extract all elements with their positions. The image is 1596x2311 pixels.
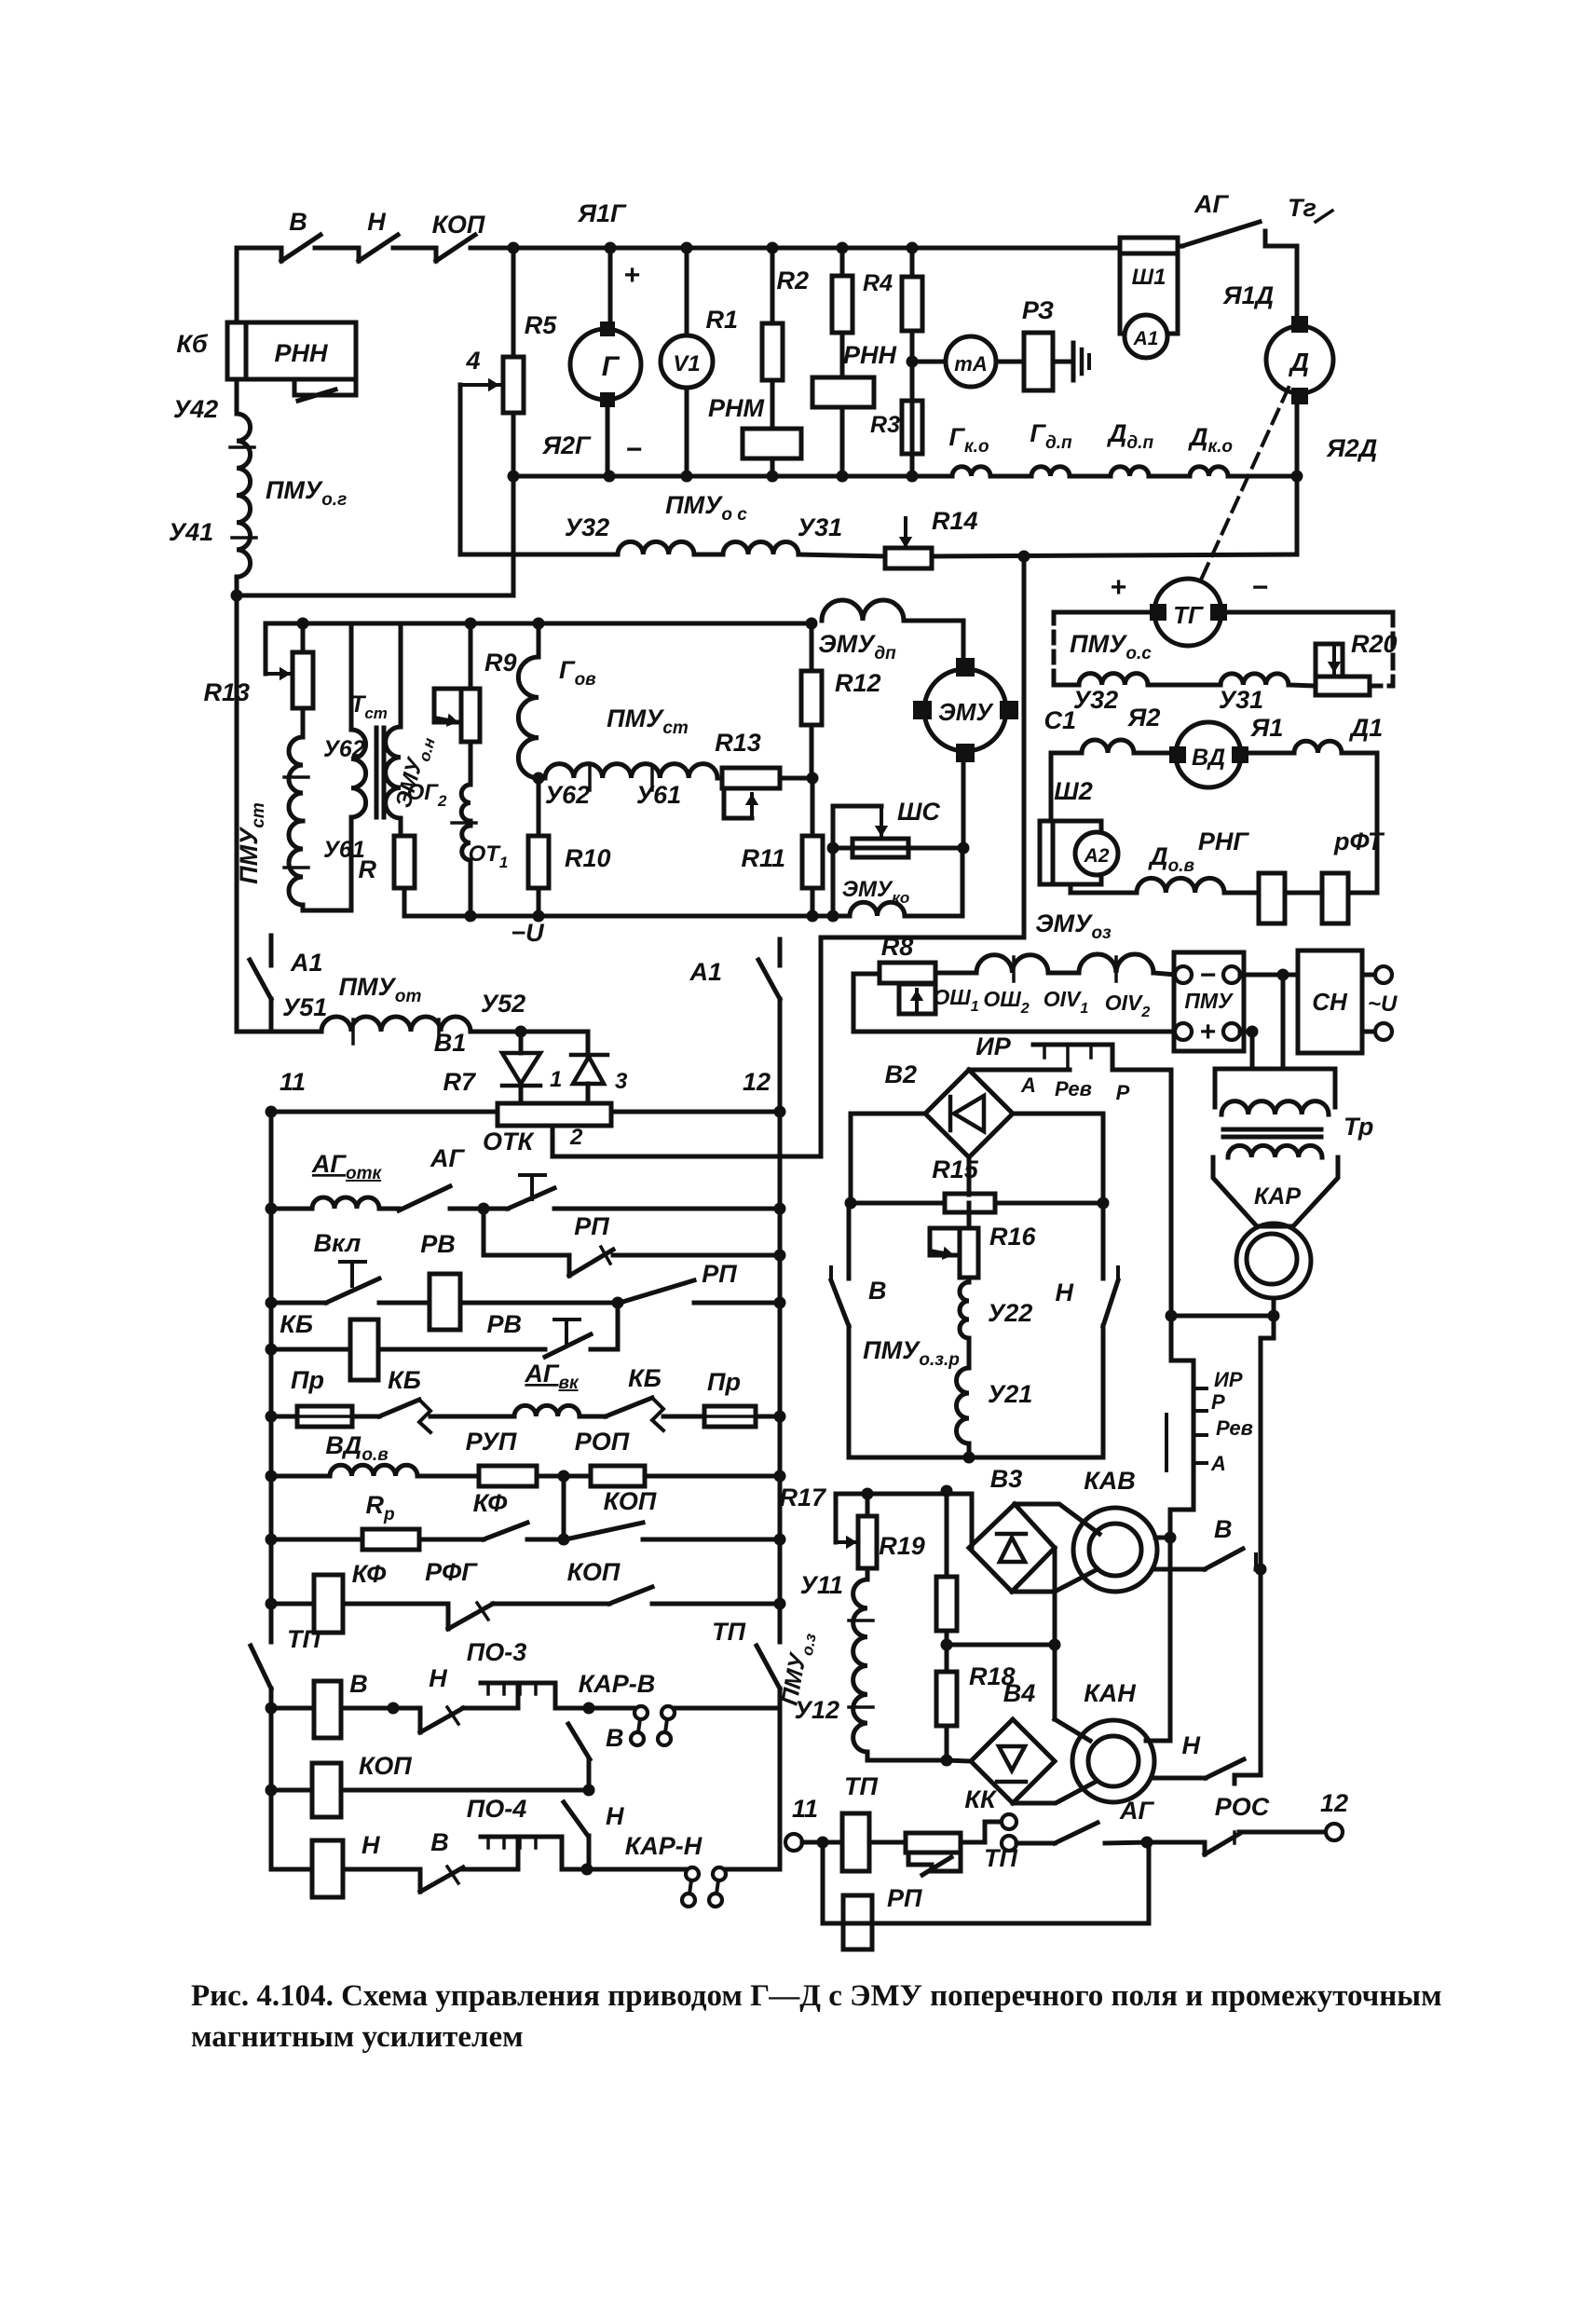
coil ПМУо.г У42 У41 on left rail [237,414,251,577]
row В ПО-3 y=1833 [266,1702,278,1715]
machine ВД circle [1176,722,1241,787]
coil АГотк [312,1197,379,1209]
coil ВДо.в [330,1465,417,1476]
wire КАР to В Н switch bus [1235,1316,1274,1775]
coil ПМУос У31 [723,542,798,555]
contactor КАР coil circles [1236,1224,1311,1298]
svg-text:А: А [1210,1452,1226,1475]
coil ОГ2 [469,742,473,785]
contacts КАР-В [589,1706,634,1711]
svg-text:РЗ: РЗ [1022,296,1054,324]
transformer Тр core bars [1223,1128,1321,1132]
svg-text:Я2Д: Я2Д [1326,434,1377,462]
switch А1 left [269,936,274,965]
svg-text:12: 12 [1320,1789,1348,1817]
wire ПМУозр bottom row [849,1456,1103,1460]
resistor R1 branch [767,242,779,254]
node R14 row junction x=1099 [1018,551,1030,563]
svg-text:−: − [625,434,642,465]
coil У21 [967,1338,972,1368]
svg-text:Д: Д [1289,348,1309,376]
svg-text:А1: А1 [689,958,722,986]
resistor R [399,818,403,836]
svg-text:У11: У11 [800,1571,843,1599]
wire branch to РП НЗ row [484,1209,569,1255]
svg-text:R13: R13 [715,729,761,757]
terminal 11 right section [785,1834,802,1851]
svg-text:КБ: КБ [388,1366,421,1394]
breaker contact КБ right [606,1398,652,1416]
svg-text:Пр: Пр [291,1366,324,1394]
meter тА ammeter [912,360,946,364]
svg-text:Г: Г [602,351,621,382]
contact РВ with Т symbol [554,1318,580,1321]
svg-text:−U: −U [511,919,545,947]
svg-text:КОП: КОП [604,1487,657,1515]
contact КФ [484,1523,527,1539]
wire В3 vertical to КАН diagonal [1053,1645,1057,1719]
svg-text:А: А [1020,1073,1036,1097]
svg-text:Кб: Кб [176,330,209,358]
coil ОШ1 ОШ2 [976,955,1048,973]
rheostat R8 [880,963,935,983]
svg-text:R3: R3 [870,412,900,438]
relay ТП box [823,1840,842,1845]
wire right vertical x=1099 from R14 node [1022,556,1027,937]
rheostat R20 [1289,685,1316,686]
contactor КАН coil circles [1072,1720,1154,1802]
wire В2 right corner to R15 right [1013,1114,1103,1203]
contacts КК [961,1822,1000,1842]
wire ОТК tap 2 from R7 [552,1126,821,1156]
row КФ РФГ y=1721 [266,1598,278,1610]
switch КОП on top bus [434,248,439,261]
shunt Ш1 with ammeter А1 [1120,238,1178,334]
relay РНН with Кб resistor [227,322,246,379]
wire ТГ right loop [1220,610,1393,615]
resistor R4 branch [907,242,919,254]
wire Дк.о to Я2Д node [1228,474,1297,479]
wire У12 bottom corner [867,1752,947,1760]
contact РП normally open [620,1280,694,1303]
machine Д motor circle [1266,326,1333,393]
resistor R18 [945,1645,949,1672]
svg-text:R2: R2 [776,267,809,294]
svg-text:1: 1 [550,1067,562,1092]
svg-text:ТП: ТП [712,1618,745,1646]
ground symbol [1053,360,1073,364]
svg-text:R4: R4 [863,270,893,296]
wire block top bus y=669 [266,622,812,626]
selector bracket ИР Р Рев А [1171,1316,1194,1470]
contact КОП [566,1523,643,1539]
wire В3 right corner vertical [1053,1548,1057,1645]
svg-text:Рев: Рев [1055,1077,1092,1101]
coil У22 [967,1278,972,1282]
svg-text:R15: R15 [932,1155,979,1183]
svg-text:Ш2: Ш2 [1054,777,1092,805]
switch В contactor [1153,1567,1205,1572]
coil Дд.п [1070,474,1111,479]
switch Н right branch [1101,1203,1106,1279]
svg-text:R1: R1 [705,306,738,334]
coil ПМУот У51 У52 [321,1017,471,1032]
wire У61 bottom loop to Тст column [303,817,351,910]
rheostat wiper arrow 4 into R5 [460,383,499,387]
svg-text:У51: У51 [282,993,327,1021]
selector ИР А Рев Р [1033,1043,1112,1047]
wire В3 to КАВ upper diagonal [1015,1504,1099,1534]
rheostat R17 body [858,1516,877,1568]
wire selector row to КАР [1171,1314,1274,1319]
relay КФ coil box [314,1575,343,1633]
svg-text:~U: ~U [1368,991,1398,1017]
relay В coil box [314,1681,341,1738]
switch ТП right rail [757,1646,780,1689]
wire coils to ПМУ box [1153,973,1177,975]
svg-text:Р: Р [1116,1081,1130,1104]
svg-text:ТГ: ТГ [1173,601,1204,629]
resistor R19 [945,1491,949,1577]
wire КАВ right stub to selector vertical [1155,1536,1170,1540]
diode symbol inside В3 [997,1532,1026,1537]
block СН box [1298,950,1362,1053]
switch АГ top right [1178,244,1182,249]
row Вкл РВ y=1398 [266,1297,278,1309]
row Н ПО-4 y=2006 [271,1867,312,1872]
terminals ~U [1362,973,1375,978]
relay РЗ box [996,360,1024,364]
svg-text:РНН: РНН [274,339,328,367]
resistor R12 [810,623,814,671]
svg-text:R20: R20 [1351,630,1398,658]
svg-text:−: − [1199,960,1216,991]
rheostat R9 with wiper loop [469,623,473,689]
relay Н coil box [312,1840,343,1897]
wire ПМУот row y=1107 [237,1030,321,1034]
svg-text:КОП: КОП [432,211,485,239]
svg-text:R7: R7 [443,1068,476,1096]
wire left rail to corner y=639 [235,577,239,1032]
svg-text:R8: R8 [881,933,914,961]
relay РП loop [821,1842,825,1923]
pushbutton ОТК [520,1173,545,1177]
transformer Тст primary winding [351,730,366,817]
switch ТП left rail [251,1646,271,1689]
svg-text:КАР-Н: КАР-Н [625,1832,703,1860]
svg-text:В: В [430,1828,449,1856]
coil Дк.о [1149,474,1190,479]
row ВДо.в y=1584 [266,1470,278,1483]
coil ОГ1 [462,826,471,860]
wire R5 branch vertical [512,248,516,357]
switch Н contactor [1154,1776,1206,1781]
svg-text:С1: С1 [1044,706,1076,734]
wire ПМУ minus to СН [1240,973,1298,978]
wire В3 to КАВ lower diagonal [1012,1590,1055,1594]
contactor КАВ coil circles [1073,1508,1157,1592]
thermal relay КК heater [906,1833,961,1853]
svg-text:КОП: КОП [567,1558,621,1586]
dashed mechanical link Д to ТГ [1202,388,1289,578]
svg-text:R19: R19 [879,1532,925,1560]
wire В2 left corner to left rail [851,1114,925,1203]
transformer Тст core bars [375,728,379,817]
cam switch ПО-3 [518,1683,555,1708]
wire between coils [1148,683,1221,688]
svg-text:КАР: КАР [1254,1183,1301,1210]
contact РОС [1147,1840,1205,1845]
block ПМУ box with terminals [1174,952,1244,1051]
relay КОП coil box [312,1763,341,1817]
rheostat ШС [833,846,963,851]
coil ЭМУко [850,902,905,916]
pushbutton Вкл [340,1260,365,1264]
resistor R7 [498,1103,611,1126]
svg-text:ШС: ШС [897,798,940,826]
contactor КАР pentagon [1213,1157,1338,1226]
wire До.в to РНГ [1224,891,1259,896]
wire left rail x=254 top [235,248,239,322]
svg-text:РНМ: РНМ [708,394,765,422]
wire ОГ1 to bottom bus [469,860,473,916]
wire 11 12 row y=1193 [271,1110,498,1114]
wire R14 to Я2Д corner [932,554,1297,556]
switch В on top bus [280,248,284,261]
coil ПМУст У61 [289,821,303,905]
svg-text:R: R [359,855,377,883]
svg-text:ЭМУ: ЭМУ [938,698,994,726]
svg-text:Пр: Пр [707,1368,741,1396]
svg-text:+: + [623,260,640,291]
machine Г generator circle [605,242,617,254]
wire РУП РОП node vertical [562,1476,566,1539]
wire between У32 У31 [694,553,723,557]
wire ЭМУ bottom to ШС row [962,755,966,848]
svg-text:А2: А2 [1084,845,1110,867]
transformer ЭМУо.н secondary winding [399,623,403,727]
row Пр КБ АГвк y=1520 [266,1411,278,1423]
svg-text:Н: Н [1056,1279,1074,1306]
svg-text:У31: У31 [798,513,842,541]
coil Гов field winding [537,623,541,657]
wire КАН upper stub [1146,1739,1170,1744]
svg-text:R9: R9 [484,649,517,677]
wire block bottom bus y=983 [404,914,850,919]
svg-text:Я1Д: Я1Д [1222,281,1274,309]
fuse Пр right [704,1406,756,1427]
coil ПМУос У32 right section [1054,683,1079,688]
wire С1 to ВД [1134,751,1176,756]
svg-text:КФ: КФ [473,1489,508,1517]
svg-text:Я1Г: Я1Г [577,199,627,227]
wire У21 bottom [967,1446,972,1457]
wire В4 bottom diagonal to КАН [1013,1782,1096,1803]
relay РОП box [591,1466,645,1486]
svg-text:12: 12 [743,1068,771,1096]
svg-text:АГ: АГ [1194,190,1229,218]
coil ПМУос У32 [618,541,694,554]
switch Н on top bus [357,248,361,261]
svg-text:РП: РП [574,1212,609,1240]
svg-text:Я2: Я2 [1127,704,1161,732]
svg-text:КБ: КБ [280,1310,313,1338]
wire elbow to x=881 down to R17 bus [821,937,1024,1156]
resistor R15 [851,1201,945,1206]
svg-text:У52: У52 [481,990,525,1018]
wire R13 to R12 column node [780,776,812,781]
svg-text:R10: R10 [565,844,611,872]
svg-text:R13: R13 [203,678,250,706]
svg-text:ИР: ИР [975,1032,1011,1060]
svg-text:У31: У31 [1219,686,1263,714]
contact РФГ normally closed [446,1604,451,1629]
relay РФТ box [1322,873,1348,923]
wire РНГ to РФТ [1285,891,1322,896]
svg-text:магнитным усилителем: магнитным усилителем [191,2020,524,2054]
svg-text:Н: Н [361,1831,380,1859]
switch АГ bottom [1016,1841,1055,1846]
coil ПМУст У62 [301,708,306,737]
contact РП normally closed [567,1255,572,1276]
rheostat R13 horizontal with wiper [722,768,780,788]
wire left rail below РНН [235,379,239,414]
wire coil gap [1048,971,1079,976]
relay РВ coil box [430,1274,460,1330]
coil ОIV1 ОIV2 [1079,954,1153,973]
svg-text:−: − [1251,572,1268,603]
svg-text:ИР: ИР [1214,1368,1243,1391]
svg-text:В1: В1 [434,1029,467,1057]
coil ПМУсm control winding [539,776,545,781]
svg-text:Рис. 4.104. Схема управления п: Рис. 4.104. Схема управления приводом Г—… [191,1979,1442,2013]
svg-text:В: В [868,1277,887,1305]
relay РУП box [479,1466,537,1486]
svg-text:КАН: КАН [1084,1679,1136,1707]
wire Я2Г bus y=511 [513,474,912,479]
svg-text:Рев: Рев [1216,1416,1253,1440]
coil Гк.о [912,474,952,479]
shunt Ш2 with ammeter А2 [1040,821,1101,884]
svg-text:РВ: РВ [486,1310,522,1338]
svg-text:R16: R16 [989,1223,1037,1251]
row АГотк y=1297 [266,1203,278,1215]
row КБ y=1448 [266,1344,278,1356]
switch В left branch [847,1203,852,1279]
svg-text:Н: Н [1182,1731,1201,1759]
svg-text:Ш1: Ш1 [1132,265,1166,290]
row КОП y=1921 [266,1785,278,1797]
wire Ш2 bottom row [1071,884,1137,893]
svg-text:+: + [1110,572,1126,603]
svg-text:АГ: АГ [430,1144,465,1172]
svg-text:R5: R5 [525,311,557,339]
svg-text:11: 11 [792,1795,818,1823]
rectifier В2 bridge diamond [925,1070,1013,1157]
svg-text:В2: В2 [884,1060,917,1088]
wire ЭМУоз parallel pair left closure [853,974,1177,1032]
rheostat R13 with feedback loop [266,623,303,674]
wire ПМУ plus to Тр [1240,1030,1252,1034]
svg-text:Вкл: Вкл [314,1229,361,1257]
machine ВД motor row [1051,751,1082,756]
svg-text:У32: У32 [565,513,609,541]
fuse Пр left [297,1406,352,1427]
svg-text:2: 2 [569,1125,583,1150]
wire right rail ladder [778,1112,783,1642]
svg-text:Р: Р [1211,1390,1225,1414]
wire Я2Д vertical [1295,398,1300,554]
svg-text:АГ: АГ [1119,1797,1154,1825]
svg-text:КАР-В: КАР-В [579,1670,656,1698]
dashed box ПМУо.с left edge [1052,612,1057,685]
coil ЭМУдп [822,600,904,621]
svg-text:Н: Н [429,1664,447,1692]
wire R to bottom bus [402,888,407,916]
svg-text:РНГ: РНГ [1198,827,1250,855]
svg-text:РВ: РВ [420,1230,456,1258]
svg-text:КФ: КФ [352,1560,387,1588]
svg-text:ПМУ: ПМУ [1184,989,1235,1013]
contact В normally closed row9 [418,1869,423,1892]
wire R17 block top bus y=1603 [836,1492,972,1497]
wire Тр primary feeds [1281,975,1286,1069]
wire В2 bottom to R15 [967,1157,972,1195]
svg-text:В3: В3 [990,1465,1023,1493]
wire R19 bottom row to В3 vertical [947,1643,1055,1648]
wire В4 left corner to R18 node [947,1760,971,1761]
transformer Тр secondary and КАР input [1228,1145,1322,1157]
svg-text:СН: СН [1312,988,1348,1016]
svg-text:А1: А1 [290,949,323,977]
wire РВ contact to РП node vertical [616,1303,621,1349]
svg-text:3: 3 [615,1069,628,1094]
svg-text:В: В [606,1724,624,1752]
switch АГ [399,1186,450,1210]
coil Гд.п [990,474,1031,479]
svg-text:КОП: КОП [359,1752,412,1780]
coil ПМУоз У11 У12 [853,1579,867,1752]
wire top bus Я1Г y=266 [237,246,281,251]
relay РНГ box [1259,873,1285,923]
wire horizontal y=639 to R5 branch [237,594,513,598]
diode symbol inside В2 [948,1097,953,1130]
svg-text:В: В [289,208,307,236]
svg-text:Н: Н [367,208,386,236]
coil Д1 [1248,751,1294,756]
wire bracket to КАВ node [1170,1470,1194,1538]
svg-text:А1: А1 [1133,328,1159,349]
svg-text:РНН: РНН [843,341,897,369]
wire С1 left vertical to Ш2 [1049,753,1054,821]
svg-text:РП: РП [702,1260,737,1288]
contact Н on branch [564,1802,588,1836]
machine ТГ tachogenerator [1154,579,1221,646]
svg-text:РП: РП [887,1884,922,1912]
svg-text:В4: В4 [1003,1679,1036,1707]
svg-text:ПО-3: ПО-3 [467,1638,526,1666]
wire R4 to node tА [910,331,915,476]
svg-text:У62: У62 [545,781,590,809]
rectifier В3 bridge diamond [970,1494,975,1547]
rectifier В1 diode 3 [586,1032,591,1057]
svg-text:Тг: Тг [1288,194,1316,222]
relay РНМ box [771,380,775,429]
rectifier В4 bridge diamond [971,1719,1055,1803]
wire КАР bottom [1272,1298,1276,1316]
resistor R5 rheostat [503,357,524,413]
svg-text:V1: V1 [673,351,700,376]
